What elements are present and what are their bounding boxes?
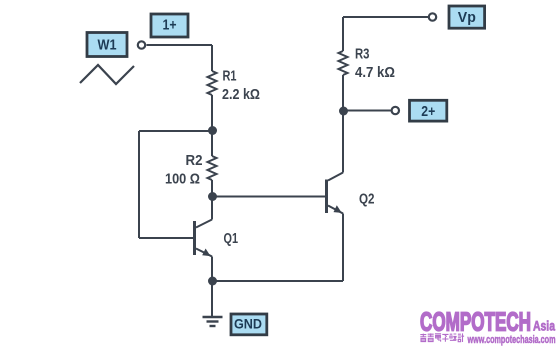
svg-text:www.compotechasia.com: www.compotechasia.com: [467, 334, 556, 346]
wire Q2 emitter diagonal: [328, 206, 343, 214]
wire R3 top to corner: [342, 17, 344, 51]
label box Vp: [449, 6, 485, 28]
wire Q2 collector diagonal: [328, 173, 343, 181]
terminal Vp open circle: [429, 13, 436, 20]
waveform symbol: [80, 65, 134, 84]
node B junction dot: [208, 192, 217, 201]
svg-text:2.2 kΩ: 2.2 kΩ: [222, 87, 260, 103]
ground: [203, 317, 223, 326]
svg-text:Asia: Asia: [533, 319, 555, 334]
resistor R3: [339, 51, 348, 75]
svg-text:R2: R2: [186, 153, 203, 169]
wire to Q1 base: [139, 237, 194, 239]
svg-text:4.7 kΩ: 4.7 kΩ: [355, 65, 395, 81]
svg-text:GND: GND: [234, 317, 262, 333]
svg-text:COMPOTECH: COMPOTECH: [420, 307, 531, 337]
label box 2+: [410, 100, 447, 121]
wire emitter rail: [212, 280, 343, 282]
svg-text:R1: R1: [223, 69, 237, 85]
terminal 2+ open circle: [392, 107, 399, 114]
wire node D to 2+ terminal: [344, 110, 391, 112]
wire Q1 collector diagonal: [196, 220, 212, 228]
wire feedback vertical: [138, 131, 140, 238]
svg-text:Q2: Q2: [359, 192, 375, 208]
logo chinese characters: [420, 333, 464, 342]
resistor R1: [208, 71, 217, 95]
wire node B to Q2 base: [212, 196, 325, 198]
transistor Q2 emitter arrow: [334, 205, 342, 213]
svg-text:W1: W1: [98, 38, 117, 54]
wire R2 bottom to node B: [211, 180, 213, 197]
resistor R2: [208, 156, 217, 180]
transistor Q1 base bar: [193, 221, 196, 255]
wire node D to R3: [342, 75, 344, 111]
wire R1 bottom to node A: [211, 95, 213, 131]
svg-text:1+: 1+: [163, 18, 177, 34]
wire corner to Vp terminal: [343, 16, 428, 18]
label box W1: [87, 33, 127, 57]
wire node A to R2: [211, 131, 213, 156]
wire Q1 emitter diagonal: [196, 249, 212, 257]
transistor Q1 emitter arrow: [202, 249, 210, 257]
svg-text:100 Ω: 100 Ω: [165, 172, 200, 188]
node C junction dot: [208, 277, 217, 286]
label box GND: [231, 314, 267, 335]
svg-text:R3: R3: [355, 47, 370, 63]
svg-text:Q1: Q1: [224, 231, 239, 247]
wire W1 terminal to R1 top corner: [147, 44, 213, 46]
svg-text:2+: 2+: [421, 104, 435, 120]
wire Q1 emitter vertical: [211, 257, 213, 282]
label box 1+: [151, 14, 188, 37]
wire ground lead: [211, 281, 213, 316]
wire Q2 emitter vertical: [342, 214, 344, 282]
terminal W1 open circle: [138, 41, 145, 48]
wire corner down to R1: [211, 45, 213, 71]
wire Q2 collector vertical: [342, 111, 344, 173]
svg-text:Vp: Vp: [458, 10, 476, 26]
wire node A left branch: [139, 130, 212, 132]
node D junction dot: [339, 107, 348, 116]
node A junction dot: [208, 126, 217, 135]
transistor Q2 base bar: [325, 180, 328, 214]
wire Q1 collector vertical: [211, 197, 213, 220]
